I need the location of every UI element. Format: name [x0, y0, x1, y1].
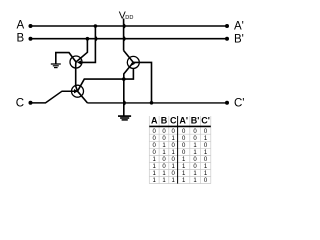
- wire U3 to line C: [78, 91, 88, 103]
- table headers: [151, 116, 210, 126]
- terminal dot C' right: [225, 101, 229, 105]
- arrowhead U3: [74, 89, 78, 93]
- wire U2 emitter to node J1: [124, 62, 134, 79]
- hop crossover Vdd over line B: [124, 37, 126, 41]
- junction dot line C: [150, 101, 154, 105]
- svg-text:C: C: [16, 97, 24, 109]
- wire V2 from line B: [76, 39, 87, 62]
- wire U2 base down: [124, 68, 134, 79]
- wire line C right segment: [87, 102, 227, 104]
- terminal dot B left: [29, 37, 33, 41]
- ground 2: [118, 116, 131, 120]
- svg-text:B: B: [17, 32, 25, 44]
- svg-text:A': A': [234, 21, 244, 33]
- table input/output separator: [177, 116, 179, 184]
- truth table: [149, 116, 211, 184]
- svg-text:C: C: [170, 116, 177, 126]
- svg-text:C': C': [201, 116, 210, 126]
- hop crossover Vdd over line A: [124, 24, 126, 28]
- svg-text:A': A': [179, 116, 188, 126]
- terminal dot A' right: [225, 24, 229, 28]
- ground 1: [51, 64, 61, 68]
- terminal dot C left: [29, 101, 33, 105]
- svg-text:C': C': [234, 97, 245, 109]
- wire V1 from line A: [81, 26, 95, 62]
- junction dot J1: [122, 77, 126, 81]
- svg-text:B': B': [191, 116, 200, 126]
- wire line B: [31, 38, 228, 40]
- wire line C input jog: [31, 91, 75, 103]
- table data: [153, 129, 208, 184]
- table grid verticals: [148, 116, 150, 184]
- transistor U2: [127, 56, 139, 68]
- svg-text:A: A: [17, 20, 25, 32]
- junction dot V1 line A: [94, 24, 98, 28]
- terminal dot B' right: [225, 37, 229, 41]
- transistor U1: [70, 56, 82, 68]
- wire U1 to U3: [76, 62, 78, 91]
- wire U3 collector to node J1: [78, 79, 124, 91]
- wire line A: [31, 25, 228, 27]
- table grid horizontals: [149, 133, 211, 135]
- wire U2 to line C: [133, 62, 151, 103]
- terminal dot A left: [29, 24, 33, 28]
- wire Vdd vertical: [123, 19, 125, 51]
- svg-text:B': B': [234, 33, 244, 45]
- junction dot V2 line B: [86, 37, 90, 41]
- svg-text:DD: DD: [125, 15, 133, 21]
- svg-text:A: A: [151, 116, 158, 126]
- hop crossover V1 over line B: [95, 37, 97, 41]
- table header underline: [149, 125, 211, 127]
- transistor U3: [72, 85, 84, 97]
- arrowhead U1: [77, 60, 81, 64]
- wire Vdd diagonal into U2: [124, 51, 134, 63]
- hop crossover ground wire over line C: [124, 101, 126, 105]
- svg-text:B: B: [161, 116, 168, 126]
- wire ground1 to U1: [56, 53, 76, 64]
- wire node J1 to ground2: [123, 79, 125, 116]
- arrowhead U2 emitter: [130, 63, 135, 67]
